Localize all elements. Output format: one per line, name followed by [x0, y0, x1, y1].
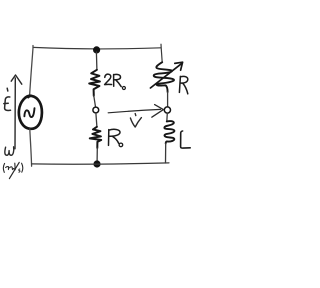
variable resistor R zigzag — [154, 62, 174, 92]
wire inductor to bottom rail — [165, 143, 167, 163]
resistor R0 zigzag — [90, 127, 101, 148]
voltage source tilde — [24, 108, 34, 117]
wire between node and R0 — [96, 113, 97, 127]
wire right vertical from top rail — [161, 44, 162, 62]
label 2R0 — [105, 74, 112, 84]
arrow for E (up arrow) — [14, 78, 16, 149]
resistor 2R0 zigzag — [89, 70, 100, 96]
node right (open circle) — [164, 107, 170, 113]
label (rad/s) — [3, 163, 4, 172]
wire top rail — [33, 47, 161, 48]
wire left vertical from source to bottom rail — [30, 129, 32, 166]
V arrow — [108, 109, 160, 112]
wire between 2R0 and node — [94, 96, 96, 107]
wire middle branch upper stub — [95, 52, 98, 70]
wire bottom rail — [32, 163, 169, 164]
inductor L coil — [164, 121, 174, 143]
wire left vertical from top rail to source — [30, 46, 33, 96]
label V-dot — [134, 114, 137, 116]
label L — [181, 131, 191, 148]
label omega — [5, 147, 14, 156]
node mid (open circle) — [93, 107, 99, 113]
label R0 — [108, 130, 110, 146]
wire node to inductor — [166, 113, 169, 121]
voltage source U1 circle — [19, 96, 42, 129]
wire R0 to bottom dot — [96, 148, 98, 161]
junction dot top — [93, 46, 100, 53]
wire var resistor to right node — [167, 92, 169, 107]
label R (right) — [179, 76, 180, 92]
junction dot bottom — [93, 160, 100, 167]
label E-dot — [6, 88, 9, 91]
variable resistor arrow — [150, 64, 181, 88]
